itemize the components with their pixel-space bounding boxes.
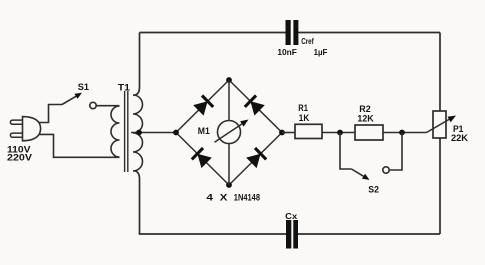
mains plug prong upper [10,120,22,124]
svg-text:R2: R2 [359,104,370,114]
wire: bridge edge bottom-left [176,133,229,186]
svg-text:Cref: Cref [301,36,314,46]
wire: bottom rail left segment [139,233,286,235]
svg-text:1N4148: 1N4148 [234,193,260,203]
junction: node after R2 [399,130,405,136]
svg-text:10nF: 10nF [277,47,297,57]
diode D2 top-right [245,96,265,116]
transformer T1 secondary winding [133,95,143,171]
svg-text:M1: M1 [198,126,210,136]
mains plug prong lower [10,133,22,137]
transformer T1 primary winding [111,106,120,157]
junction: secondary tap [136,130,142,136]
wire: left rail top (top rail down to secondary) [134,33,140,96]
wire: bridge edge top-right [229,80,282,133]
transformer T1 core [125,91,128,172]
svg-text:S1: S1 [78,82,89,92]
svg-text:220V: 220V [7,152,32,162]
diode D1 top-left [193,96,213,116]
svg-text:R1: R1 [298,103,308,113]
wire: meter to bottom vertex [228,144,230,186]
wire: bridge edge right-bottom [229,133,282,186]
potentiometer P1 body [433,111,446,138]
wire: secondary tap to bridge left vertex [131,132,176,134]
svg-text:12K: 12K [357,113,374,123]
switch S1 arm [62,93,82,105]
junction: bridge right vertex [279,130,285,136]
switch S2 contact [383,167,389,173]
junction: bridge bottom vertex [226,182,232,188]
wire: plug lower lead to primary bottom [39,134,120,157]
switch S2 arm [352,169,370,180]
diode D4 bottom-right [246,148,266,168]
wire: right vertex to R1 [282,132,295,134]
wire: S2 right branch [389,133,402,171]
wire: top rail left segment [140,32,287,34]
wire: right rail upper (top rail to P1) [439,33,441,112]
junction: bridge top vertex [226,77,232,83]
wire: bridge edge left-top [176,80,229,133]
svg-text:S2: S2 [368,184,379,194]
junction: bridge left vertex [173,130,179,136]
wire: R1 to R2 [322,132,355,134]
svg-text:1K: 1K [299,113,310,123]
wire: top rail right segment [298,32,440,34]
mains plug body [23,117,41,141]
resistor R1 [295,124,322,138]
svg-text:22K: 22K [451,133,468,143]
wire: top vertex to meter [228,80,230,121]
svg-text:1µF: 1µF [314,47,328,57]
junction: node after R1 [337,130,343,136]
capacitor Cx [286,220,298,249]
svg-text:X: X [220,193,229,203]
switch S1 contact [90,102,96,108]
svg-text:4: 4 [206,193,214,203]
svg-text:T1: T1 [118,82,130,92]
wire: right rail lower (P1 to bottom rail) [439,138,441,234]
wire: plug upper lead to S1 [39,105,63,123]
potentiometer P1 wiper arrow [427,116,457,133]
wire: left rail bottom (secondary down to bottom rail) [134,171,140,234]
wire: R2 to P1 node [383,132,427,134]
wire: S1 contact to primary top [96,105,119,107]
wire: bottom rail right segment [298,233,440,235]
resistor R2 [355,125,383,140]
wire: S2 left branch [340,133,352,170]
diode D3 bottom-left [192,148,212,168]
capacitor Cref [286,20,299,45]
meter M1 [215,120,249,144]
svg-text:Cx: Cx [285,211,297,221]
